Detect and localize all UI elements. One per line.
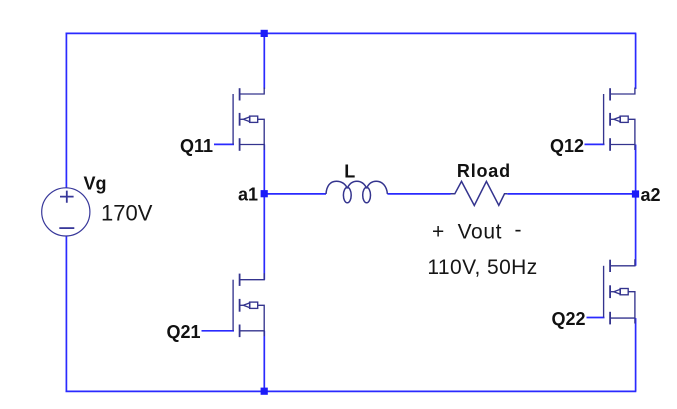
svg-text:+: +	[432, 220, 445, 243]
svg-text:a2: a2	[641, 185, 661, 205]
svg-text:Q22: Q22	[552, 309, 586, 329]
wire left leg Q11 drain drop	[263, 33, 265, 89]
wire resistor to node a2	[507, 193, 635, 195]
wire Q21 gate lead	[202, 330, 235, 332]
voltage source Vg	[42, 188, 90, 236]
wire inductor to resistor	[387, 193, 450, 195]
wire right leg Q12 drain drop	[635, 33, 637, 89]
wire Q12 gate lead	[585, 143, 605, 145]
svg-text:L: L	[344, 162, 355, 182]
svg-text:Q12: Q12	[550, 136, 584, 156]
wire left rail upper	[65, 33, 67, 188]
wire Q11 gate lead	[214, 143, 234, 145]
wire output a1 to inductor	[264, 193, 326, 195]
svg-text:170V: 170V	[101, 200, 153, 225]
node a1 junction	[261, 190, 268, 197]
wire Q22 gate lead	[587, 317, 605, 319]
svg-text:Vout: Vout	[458, 220, 502, 243]
wire left leg Q11 source to Q21 drain through node a1	[263, 145, 265, 280]
transistor Q21 (MOSFET)	[233, 273, 264, 337]
transistor Q12 (MOSFET)	[604, 88, 635, 151]
svg-text:Vg: Vg	[84, 174, 107, 194]
svg-text:110V, 50Hz: 110V, 50Hz	[427, 256, 537, 279]
wire left rail lower	[65, 236, 67, 392]
svg-text:Q11: Q11	[180, 136, 213, 156]
node a2 junction	[632, 190, 639, 197]
wire bottom rail	[66, 390, 637, 392]
resistor Rload	[451, 181, 508, 205]
svg-text:Rload: Rload	[457, 161, 511, 181]
wire left leg Q21 source to bottom rail	[263, 331, 265, 392]
wire top rail	[66, 32, 637, 34]
svg-text:Q21: Q21	[167, 322, 201, 342]
svg-text:-: -	[515, 219, 522, 242]
wire right leg Q12 source to Q22 drain through node a2	[635, 145, 637, 266]
svg-text:a1: a1	[238, 185, 258, 205]
transistor Q11 (MOSFET)	[233, 88, 264, 151]
inductor L	[326, 181, 387, 203]
wire right leg Q22 source to bottom rail	[635, 318, 637, 391]
node junction bottom	[261, 388, 268, 395]
node junction top	[261, 30, 268, 37]
transistor Q22 (MOSFET)	[604, 259, 635, 324]
